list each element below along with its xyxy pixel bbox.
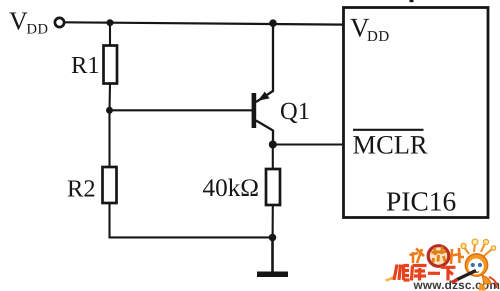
- node junction emitter-top: [269, 19, 277, 27]
- svg-text:R2: R2: [67, 176, 96, 203]
- svg-text:DD: DD: [367, 29, 390, 45]
- watermark logo dzsc: [385, 239, 500, 291]
- node junction top-R1: [107, 19, 114, 26]
- stray mark top: [410, 0, 414, 2]
- wire 40k top: [272, 145, 274, 170]
- wire R1 top: [109, 23, 111, 47]
- watermark char pian: [451, 248, 464, 264]
- watermark ring xin: [428, 246, 449, 267]
- wire R2 top: [108, 110, 110, 167]
- resistor R2: [103, 167, 117, 203]
- svg-text:R1: R1: [71, 52, 100, 79]
- watermark char zhao: [410, 249, 425, 264]
- pin MCLR label: [353, 130, 428, 160]
- pin VDD label: [350, 13, 390, 46]
- watermark mascot: [452, 239, 497, 291]
- node VDD label: [9, 7, 48, 38]
- wire base: [110, 109, 253, 111]
- svg-text:40kΩ: 40kΩ: [203, 175, 260, 202]
- IC U1 PIC16 box: [344, 8, 489, 218]
- wire 40k bottom: [272, 205, 274, 238]
- node junction collector: [269, 141, 277, 149]
- transistor Q1: [252, 23, 273, 145]
- wire ground lead: [271, 238, 274, 273]
- svg-text:DD: DD: [27, 22, 49, 38]
- wire top rail: [65, 22, 344, 24]
- svg-text:PIC16: PIC16: [386, 186, 456, 217]
- wire R1 bottom: [108, 84, 111, 112]
- wire R2 bottom: [110, 203, 273, 237]
- char ku: [412, 266, 427, 281]
- resistor 40k: [266, 169, 280, 205]
- watermark text weikuyixia: [394, 265, 456, 281]
- svg-text:MCLR: MCLR: [353, 130, 428, 160]
- node junction base: [106, 107, 113, 114]
- svg-text:Q1: Q1: [280, 98, 310, 125]
- resistor R1: [104, 46, 118, 84]
- terminal VDD: [55, 18, 64, 27]
- ground: [257, 272, 288, 278]
- char yi: [428, 272, 440, 275]
- char xia: [441, 267, 456, 280]
- watermark swoosh: [385, 275, 397, 282]
- svg-text:V: V: [9, 7, 28, 36]
- char wei: [394, 265, 410, 281]
- wire MCLR: [273, 143, 344, 145]
- node junction bottom: [269, 234, 277, 242]
